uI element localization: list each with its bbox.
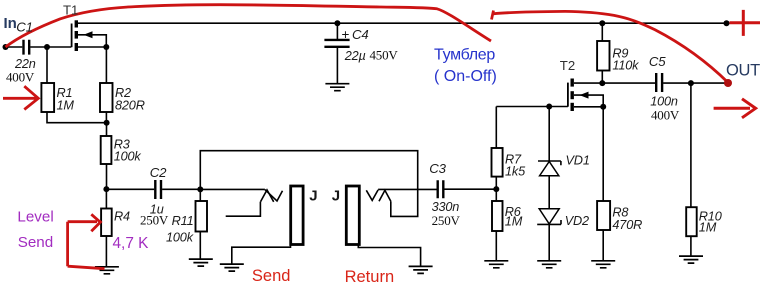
wire R11 stub (199, 189, 201, 258)
svg-text:C1: C1 (16, 20, 33, 35)
capacitor C5 (656, 73, 662, 92)
node C4 top (334, 20, 340, 26)
wire T2 source (574, 106, 603, 108)
svg-text:R11: R11 (172, 214, 194, 228)
red annotation: out arrow (714, 99, 756, 118)
svg-text:100k: 100k (114, 150, 142, 164)
wire T1 source to node (78, 46, 106, 48)
wire R3 stubs (106, 123, 108, 189)
svg-text:250V: 250V (432, 213, 461, 228)
svg-text:C3: C3 (429, 161, 446, 176)
svg-text:C2: C2 (150, 165, 167, 180)
svg-text:( On-Off): ( On-Off) (434, 68, 497, 85)
svg-text:Send: Send (18, 234, 53, 251)
node T2 source / R8 (600, 104, 606, 110)
node R1 top (44, 44, 50, 50)
jack J return tip spring (366, 190, 378, 201)
resistor R6 (492, 201, 503, 231)
svg-text:T2: T2 (560, 58, 575, 73)
transistor T1 (72, 20, 93, 51)
red annotation: switch-to-out curve (492, 11, 729, 84)
wire R7 rail / T2 gate line run (496, 107, 568, 190)
jack J send switch arm (261, 190, 274, 202)
wire R8 rail (602, 107, 604, 261)
jack J send body (291, 186, 303, 245)
wire send tip (200, 188, 265, 190)
wire bypass routing up and across (200, 151, 417, 217)
svg-text:VD2: VD2 (565, 214, 589, 228)
jack J send switch stub (226, 202, 261, 216)
capacitor C4 (324, 40, 349, 47)
svg-text:1M: 1M (57, 99, 75, 113)
svg-text:1k5: 1k5 (505, 165, 526, 179)
wire R6 stubs (495, 189, 497, 261)
node OUT (724, 80, 730, 86)
red annotation: input bypass curve (6, 5, 492, 47)
ground R10 (679, 256, 703, 263)
jack J send tip spring (265, 190, 283, 201)
resistor R1 (41, 83, 54, 112)
wire R2 stubs (105, 47, 107, 123)
wire return tip to C3 (378, 188, 437, 190)
svg-text:C5: C5 (649, 54, 666, 69)
red annotation: level-send bracket arrow (68, 214, 105, 268)
svg-text:Тумблер: Тумблер (434, 46, 495, 63)
svg-text:1M: 1M (699, 221, 717, 235)
resistor R2 (100, 83, 113, 112)
svg-text:Send: Send (252, 267, 291, 285)
wire VD string rail (548, 107, 550, 261)
red annotation: plus (730, 10, 761, 36)
wire C3 right to node (444, 188, 496, 190)
svg-text:T1: T1 (63, 3, 78, 18)
node R1-R2-R3 (104, 120, 110, 126)
resistor R7 (492, 148, 503, 177)
ground return jack (409, 266, 433, 273)
wire T2 body arrow branch (574, 95, 603, 107)
svg-text:C4: C4 (352, 27, 369, 42)
wire T2 drain to C5 (574, 82, 727, 84)
svg-text:Level: Level (17, 208, 53, 225)
node input (3, 44, 9, 50)
resistor R11 (196, 201, 208, 232)
node C3-R7-R6 (493, 186, 499, 192)
ground R4 (95, 267, 119, 274)
wire R9 stubs (601, 23, 603, 83)
svg-text:400V: 400V (651, 108, 680, 123)
ground C4 (325, 84, 349, 91)
capacitor C2 (155, 180, 161, 199)
svg-text:VD1: VD1 (566, 153, 590, 167)
wire T1 body arrow branch (78, 35, 106, 47)
svg-text:Return: Return (345, 268, 395, 286)
svg-text:820R: 820R (115, 99, 145, 113)
resistor R3 (101, 136, 112, 164)
wire R10 rail (690, 83, 692, 256)
node C2-R11-send (197, 186, 203, 192)
capacitor C3 (438, 180, 444, 198)
wire C2 right to node (162, 188, 200, 190)
wire top rail (78, 22, 727, 24)
node R9 bottom / drain (599, 80, 605, 86)
svg-text:100n: 100n (650, 95, 678, 109)
svg-text:4,7 K: 4,7 K (113, 235, 150, 252)
diode VD2 (537, 209, 561, 225)
resistor R9 (597, 41, 609, 71)
svg-text:250V: 250V (140, 212, 169, 227)
ground send jack (220, 264, 244, 271)
ground VD2 (537, 261, 561, 268)
svg-text:330n: 330n (432, 200, 460, 214)
svg-text:OUT: OUT (726, 62, 760, 80)
svg-text:470R: 470R (612, 218, 642, 232)
wire C4 stubs (336, 23, 338, 83)
red annotation: blob at OUT (724, 79, 732, 87)
wire R1 stub top (46, 47, 48, 83)
wire input line (6, 46, 72, 48)
svg-text:R4: R4 (114, 210, 130, 224)
svg-text:400V: 400V (6, 70, 35, 85)
ground R11 (189, 259, 213, 266)
wire R1 bottom to junction (47, 112, 107, 123)
node R3-R4-C2 (103, 186, 109, 192)
node T1 source (103, 44, 109, 50)
wire send jack ground run (232, 245, 291, 264)
node T2 gate / VD (546, 104, 552, 110)
svg-text:1M: 1M (505, 214, 523, 228)
resistor R10 (686, 207, 697, 236)
svg-text:22µ: 22µ (344, 49, 366, 63)
resistor R4 (101, 209, 112, 237)
node top rail end (724, 20, 730, 26)
jack J return body (346, 186, 359, 245)
transistor T2 (568, 79, 589, 112)
node R9 top (599, 20, 605, 26)
svg-text:+: + (342, 27, 350, 42)
red annotation: arrow to R1 (3, 86, 38, 109)
wire R4 stubs (105, 189, 107, 267)
svg-text:110k: 110k (612, 59, 639, 73)
wire return jack ground run (358, 245, 420, 266)
capacitor C1 (24, 40, 30, 55)
svg-text:100k: 100k (166, 230, 194, 244)
svg-text:In: In (4, 15, 17, 32)
jack J return switch arm (379, 190, 391, 201)
svg-text:J: J (309, 188, 317, 205)
ground R8 (591, 261, 615, 268)
resistor R8 (597, 201, 610, 230)
diode VD1 (538, 161, 561, 176)
node R10 top (688, 80, 694, 86)
svg-text:J: J (332, 188, 340, 205)
ground R6 (484, 261, 508, 268)
wire C2 left (106, 188, 154, 190)
svg-text:450V: 450V (370, 47, 399, 62)
